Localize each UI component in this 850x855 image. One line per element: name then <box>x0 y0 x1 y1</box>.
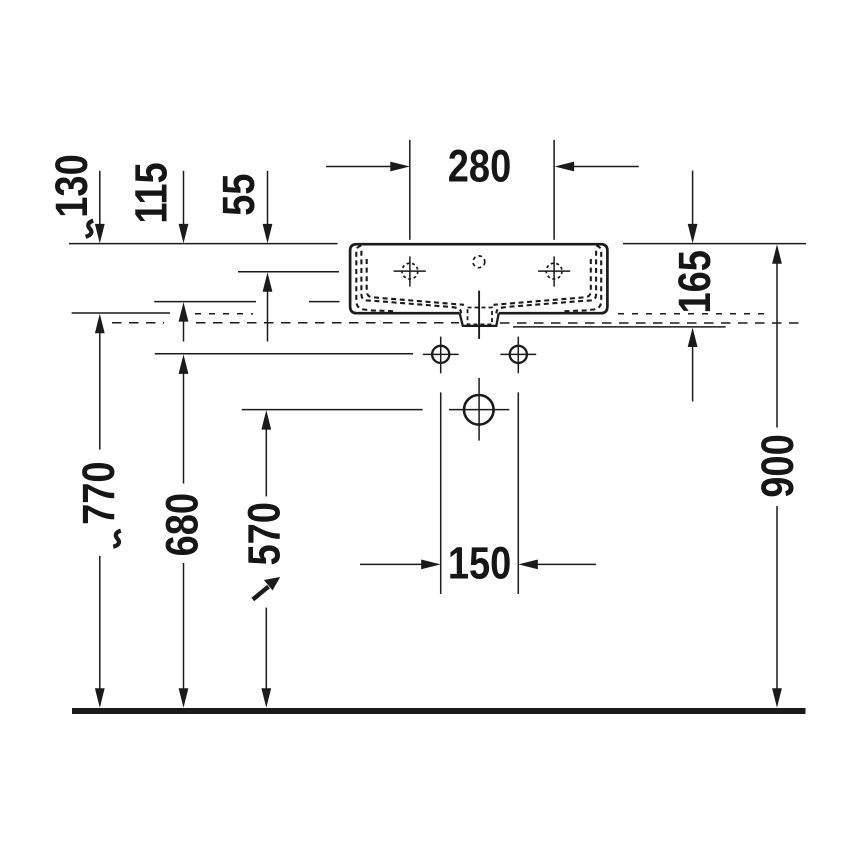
dim 55 top arrowhead <box>263 224 273 244</box>
faucet hole right dashed circle <box>546 263 562 279</box>
dim 570 top arrowhead <box>261 410 271 430</box>
svg-text:570: 570 <box>238 502 289 565</box>
overflow level line (55 target) <box>238 271 339 273</box>
dim 900 bottom arrowhead <box>772 688 782 708</box>
svg-text:280: 280 <box>448 140 511 191</box>
basin bottom level line (115 target) right part <box>309 301 340 303</box>
dim 115 top arrowhead <box>179 224 189 244</box>
long dashed installation line segment 1 <box>112 322 164 324</box>
svg-text:150: 150 <box>448 537 511 588</box>
svg-text:900: 900 <box>752 434 803 497</box>
tilde of ~770 <box>113 531 121 547</box>
extension line right fixing hole <box>517 392 519 594</box>
long dashed installation line segment 2 <box>196 322 459 324</box>
drain centre line <box>478 291 480 339</box>
drain outlet level line (165 target) <box>513 326 726 328</box>
dim 115 top arrow shaft <box>183 171 185 225</box>
siphon hole cross <box>449 409 509 411</box>
hidden level dashes right of basin <box>618 313 766 315</box>
adjustability arrow (NE) head <box>264 577 280 590</box>
extension line right faucet <box>553 140 555 240</box>
siphon cover level line (130 target) <box>72 312 170 314</box>
dim ~130 top arrowhead <box>95 224 105 244</box>
dim 900 top arrowhead <box>772 244 782 264</box>
dim 280 arrowhead right-pointing <box>390 162 410 172</box>
inner bowl dashed: right wall outer <box>562 246 602 312</box>
dim 165 bottom arrowhead <box>688 328 698 348</box>
dim 570 bottom arrowhead <box>261 688 271 708</box>
dim 680 shaft upper <box>183 373 185 483</box>
inner bowl dashed: left wall middle <box>361 251 461 313</box>
inner bowl dashed: left wall inner <box>367 259 464 305</box>
inner bowl dashed: right wall inner <box>494 259 591 305</box>
drain inner dashed rect <box>468 308 493 325</box>
dim 150 line right segment <box>537 563 596 565</box>
tilde of ~130 <box>86 221 94 237</box>
dim ~770 bottom arrowhead <box>95 688 105 708</box>
dim 165 top arrowhead <box>688 224 698 244</box>
extension line left fixing hole <box>440 392 442 594</box>
fixing hole right circle <box>510 346 527 363</box>
svg-text:55: 55 <box>213 174 264 216</box>
long dashed installation line segment 3 <box>500 322 806 324</box>
dim ~770 top arrowhead <box>95 314 105 334</box>
drain cup solid <box>460 313 499 326</box>
hidden level dashes left of basin <box>195 313 253 315</box>
dim 280 line right segment <box>574 166 639 168</box>
svg-text:770: 770 <box>73 461 124 524</box>
dim 115 bottom arrowhead <box>179 302 189 322</box>
wall/rim reference line right segment <box>623 243 806 245</box>
dim 570 shaft lower <box>265 608 267 689</box>
dim 115 bottom arrow tail <box>183 321 185 342</box>
dim 680 shaft lower <box>183 563 185 689</box>
fixing hole left cross <box>423 353 459 355</box>
dim 680 bottom arrowhead <box>179 688 189 708</box>
faucet hole right cross <box>538 270 570 272</box>
dim 680 top arrowhead <box>179 354 189 374</box>
floor line <box>72 708 806 714</box>
extension line left faucet <box>409 140 411 240</box>
svg-text:165: 165 <box>669 250 720 313</box>
dim 900 shaft upper <box>776 263 778 428</box>
dim 55 bottom arrowhead <box>263 272 273 292</box>
adjustability arrow (NE) shaft <box>253 587 269 600</box>
dim 165 bottom arrow tail <box>692 346 694 401</box>
dim ~770 shaft lower <box>99 556 101 689</box>
svg-text:130: 130 <box>46 154 97 217</box>
dim 150 arrowhead right-pointing <box>421 560 441 570</box>
dim 570 shaft upper <box>265 429 267 497</box>
fixing hole right cross <box>500 353 536 355</box>
svg-text:115: 115 <box>125 162 176 223</box>
overflow dashed circle <box>473 256 485 268</box>
wall/rim reference line left segment <box>69 243 338 245</box>
dim 900 shaft lower <box>776 506 778 689</box>
dim 150 line left segment <box>360 563 422 565</box>
fixing holes level line (680 target) <box>155 353 413 355</box>
dim ~130 top arrow shaft <box>99 171 101 225</box>
dim 55 top arrow shaft <box>267 171 269 225</box>
dim 280 line left segment <box>326 166 391 168</box>
dim 280 arrowhead left-pointing <box>555 162 575 172</box>
basin bottom level line (115 target) left part <box>154 301 256 303</box>
dim 150 arrowhead left-pointing <box>518 560 538 570</box>
inner bowl dashed: right wall middle <box>496 251 596 313</box>
svg-text:680: 680 <box>156 493 207 556</box>
faucet hole left dashed circle <box>402 263 418 279</box>
faucet hole left cross <box>394 270 426 272</box>
dim ~770 shaft upper <box>99 333 101 450</box>
siphon hole level line (570 target) <box>242 409 423 411</box>
dim 165 top arrow shaft <box>692 171 694 225</box>
dim 55 bottom arrow tail <box>267 291 269 342</box>
inner bowl dashed: left wall outer <box>356 246 396 312</box>
siphon hole circle <box>464 395 494 425</box>
fixing hole left circle <box>432 346 449 363</box>
basin outline <box>350 244 607 313</box>
